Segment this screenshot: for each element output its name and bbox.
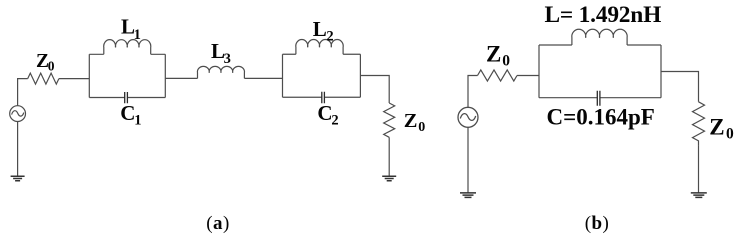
resistor Z0 load (a) — [384, 103, 395, 137]
inductor L (b) — [572, 29, 627, 45]
svg-text:Z: Z — [486, 42, 501, 67]
wire source-bottom to ground (a) — [17, 122, 19, 177]
tank box sides (b) — [539, 45, 661, 98]
AC source V1 (circuit a) — [10, 106, 26, 122]
wire source-bottom to ground (b) — [467, 127, 469, 193]
AC source V2 (circuit b) — [458, 107, 478, 127]
wire tank2 to load corner (a) — [360, 76, 389, 104]
svg-text:0: 0 — [726, 126, 734, 143]
svg-text:Z: Z — [404, 110, 418, 132]
inductor L3 — [197, 66, 244, 78]
capacitor C2 plates — [322, 92, 325, 104]
svg-text:(b): (b) — [585, 213, 609, 234]
svg-text:C=0.164pF: C=0.164pF — [547, 105, 655, 130]
wire load resistor to ground (b) — [698, 145, 700, 193]
capacitor C plates (b) — [597, 91, 600, 106]
svg-text:0: 0 — [418, 120, 425, 135]
wire tank to load corner (b) — [661, 72, 699, 102]
wire L3 to tank2 — [244, 77, 282, 79]
svg-text:0: 0 — [48, 59, 55, 74]
ground right (a) — [382, 176, 396, 180]
svg-text:3: 3 — [224, 51, 231, 67]
resistor Z0 load (b) — [693, 102, 705, 145]
tank2 box sides — [283, 54, 361, 97]
wire source-top to resistor (b) — [468, 76, 478, 108]
ground left (b) — [460, 193, 476, 198]
svg-text:(a): (a) — [206, 213, 229, 234]
wire resistor to tank1 (a) — [59, 78, 89, 80]
svg-text:2: 2 — [331, 112, 338, 128]
inductor L2 — [296, 39, 343, 54]
svg-text:L= 1.492nH: L= 1.492nH — [545, 2, 662, 28]
svg-text:1: 1 — [134, 112, 141, 128]
svg-text:C: C — [317, 101, 332, 125]
wire source-top to resistor (a) — [18, 79, 28, 106]
svg-text:L: L — [313, 17, 327, 41]
resistor Z0 source (b) — [478, 70, 518, 81]
ground right (b) — [691, 193, 707, 198]
svg-text:0: 0 — [502, 53, 510, 70]
capacitor C1 plates — [125, 92, 128, 103]
resistor Z0 source (a) — [28, 73, 59, 84]
wire tank1 to L3 — [165, 77, 197, 79]
wire load resistor to ground (a) — [388, 137, 390, 176]
inductor L1 — [104, 40, 151, 55]
svg-text:C: C — [120, 101, 135, 125]
svg-text:2: 2 — [326, 28, 333, 44]
tank1 box sides — [89, 54, 165, 97]
svg-text:Z: Z — [709, 115, 724, 140]
ground left (a) — [11, 176, 25, 180]
wire resistor to tank (b) — [517, 75, 539, 77]
svg-text:1: 1 — [134, 27, 141, 43]
